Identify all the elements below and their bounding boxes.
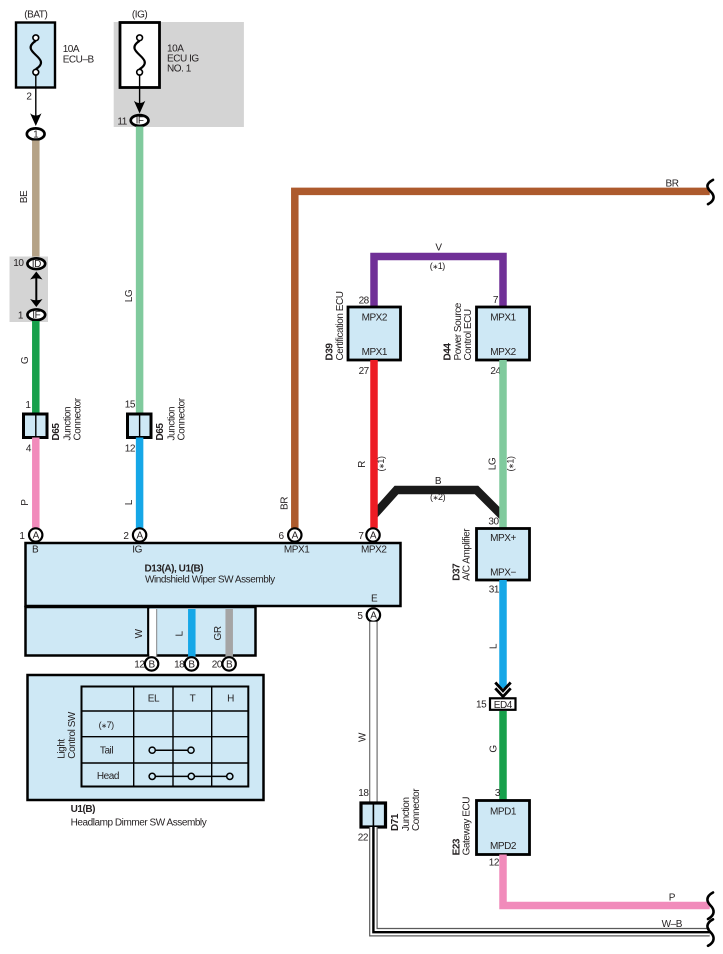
sub box of wiper assembly [26,607,256,656]
pin 12 of D65 [125,444,136,455]
wire fuse to connector 1 [35,75,37,117]
svg-text:(∗7): (∗7) [99,720,115,730]
pin 28 of D39 [359,295,370,306]
node (BAT) label [24,10,47,21]
pin 12 of E23 [489,857,500,868]
pin 27 of D39 [359,366,370,377]
pin 15 of D65 [125,400,136,411]
svg-text:A: A [292,531,299,542]
break squiggle W-B [707,919,713,946]
svg-text:W: W [134,628,145,638]
svg-text:1: 1 [33,129,39,140]
svg-text:10A: 10A [63,44,80,55]
fuse value label 10A ECU-B [63,44,95,66]
ECU D44 Power Source Control ECU [477,307,530,360]
wire fuse to IF [139,75,141,104]
node (IG) label [132,10,148,21]
svg-text:1: 1 [18,311,24,322]
svg-text:W: W [357,732,368,742]
connector ED4 [490,698,516,711]
svg-text:D65: D65 [51,423,62,441]
svg-text:MPX−: MPX− [490,568,516,579]
svg-text:EL: EL [148,694,160,705]
wire label LG [124,289,135,302]
table header T [190,694,196,705]
wire V [374,257,503,308]
svg-text:G: G [489,745,500,753]
label Headlamp Dimmer SW Assembly [71,818,207,829]
svg-text:7: 7 [493,295,499,306]
pin 11 [117,117,127,128]
svg-text:BR: BR [280,497,291,510]
label D71 Junction Connector [390,788,422,831]
wire W (inside sub box) [148,607,157,657]
svg-text:Certification ECU: Certification ECU [335,291,346,360]
svg-text:MPD2: MPD2 [490,841,517,852]
svg-text:18: 18 [358,788,369,799]
pin 5 terminal A [357,611,363,622]
label E23 Gateway ECU [452,797,473,856]
label D39 Certification ECU [324,291,346,360]
wire LG right [499,360,507,529]
svg-text:12: 12 [134,660,145,671]
wire W from 5A to D71 [369,622,378,803]
gray block for ID/IF connectors [10,257,49,323]
wire label (*1) under V [430,261,446,271]
svg-text:MPX2: MPX2 [361,545,387,556]
wire label W (right branch) [357,732,368,742]
svg-text:2: 2 [26,92,32,103]
svg-text:Control ECU: Control ECU [463,309,474,360]
double chevron into ED4 [495,683,510,697]
wire label V [435,243,442,254]
wire label BR (vertical) [280,497,291,510]
svg-text:(∗2): (∗2) [430,492,446,502]
fuse 10A ECU-B [16,23,55,88]
break squiggle P [707,893,713,920]
label Light Control SW [57,711,79,759]
wire W-B from D71 down and right to edge [373,827,709,932]
break squiggle BR [707,180,713,204]
pin 1 terminal A [19,531,25,542]
svg-text:LG: LG [488,457,499,470]
svg-text:6: 6 [278,531,284,542]
pin 20 terminal B [212,660,223,671]
terminal 12B [145,657,158,670]
svg-text:(IG): (IG) [132,10,148,21]
pin 1 [18,311,24,322]
double arrow between ID and IF [30,272,42,308]
wire P [32,438,40,529]
pin 3 of E23 [495,788,501,799]
svg-text:Tail: Tail [100,746,113,757]
svg-text:MPX2: MPX2 [490,347,516,358]
wire L [136,438,144,529]
pin 30 of D37 [488,516,499,527]
connector oval 1 [27,128,45,140]
ECU E23 Gateway ECU [477,801,530,855]
svg-text:15: 15 [476,700,487,711]
svg-text:T: T [190,694,196,705]
svg-text:31: 31 [489,585,500,596]
svg-text:D39: D39 [324,343,335,361]
svg-text:7: 7 [358,531,364,542]
switch contact Head row [149,773,233,779]
svg-text:IG: IG [132,545,142,556]
svg-text:D44: D44 [443,343,454,361]
pin 22 of D71 [358,833,369,844]
label D37 A/C Amplifier [452,528,473,581]
svg-text:A/C Amplifier: A/C Amplifier [462,528,473,581]
junction connector D65 (left) [24,414,48,438]
svg-text:B: B [435,476,442,487]
wire label L (right) [489,643,500,649]
svg-text:BR: BR [666,179,679,190]
fuse 10A ECU IG NO.1 [120,23,160,88]
table header H [227,694,234,705]
svg-text:GR: GR [213,626,224,640]
svg-text:ED4: ED4 [494,700,513,711]
svg-text:G: G [20,356,31,364]
ECU D13(A) U1(B) Windshield Wiper SW Assembly [26,543,401,606]
row label Tail [100,746,113,757]
pin 7 terminal A [358,531,364,542]
wire label LG right [488,457,499,470]
svg-text:B: B [32,545,39,556]
wire label G (right) [489,745,500,753]
svg-text:(∗1): (∗1) [506,456,516,472]
svg-text:MPD1: MPD1 [490,807,517,818]
pin 12 terminal B [134,660,145,671]
junction connector D65 (right) [128,414,152,438]
wire label L (sub box) [175,630,186,636]
wire label BE [19,190,30,203]
svg-text:(∗1): (∗1) [430,261,446,271]
svg-text:Connector: Connector [73,397,84,440]
label D65 Junction Connector [51,397,84,440]
svg-text:H: H [227,694,234,705]
svg-text:MPX1: MPX1 [490,312,516,323]
svg-text:A: A [370,531,377,542]
svg-text:10: 10 [13,258,24,269]
svg-text:ID: ID [32,259,41,270]
wire label G [20,356,31,364]
wire L (D37 to ED4) [499,580,507,688]
wire B [374,490,503,516]
pin 24 of D44 [490,366,501,377]
pin 2 of fuse [26,92,32,103]
svg-text:22: 22 [358,833,369,844]
fuse value label 10A ECU IG NO. 1 [167,44,199,75]
svg-text:Connector: Connector [177,397,188,440]
connector oval ID [27,258,45,270]
svg-text:D71: D71 [390,813,401,831]
wire label B [435,476,442,487]
svg-text:B: B [226,660,233,671]
svg-text:L: L [124,499,135,505]
svg-text:Head: Head [97,771,119,782]
wire GR (inside sub box) [225,609,233,657]
wire BR [295,191,710,528]
svg-text:P: P [20,499,31,506]
pin 31 of D37 [489,585,500,596]
wire P (bottom) [503,855,710,906]
svg-text:IF: IF [136,116,144,127]
switch table grid [82,687,249,787]
wire label W [134,628,145,638]
svg-text:30: 30 [488,516,499,527]
svg-text:15: 15 [125,400,136,411]
terminal 5A [367,608,380,621]
pin 6 terminal A [278,531,284,542]
svg-text:27: 27 [359,366,370,377]
svg-text:11: 11 [117,117,127,128]
svg-text:1: 1 [19,531,25,542]
pin 18 terminal B [174,660,185,671]
svg-text:B: B [148,660,155,671]
pin 4 of D65 [26,444,32,455]
row label (*7) [99,720,115,730]
pin 18 of D71 [358,788,369,799]
terminal 1A [29,528,42,541]
svg-text:D65: D65 [155,423,166,441]
wire G (right) [499,711,507,801]
switch U1(B) Headlamp Dimmer SW Assembly [28,675,264,800]
terminal 20B [222,657,235,670]
svg-text:ECU–B: ECU–B [63,55,95,66]
svg-text:P: P [669,892,676,903]
svg-text:L: L [175,630,186,636]
svg-text:MPX1: MPX1 [362,347,388,358]
terminal 6A [288,528,301,541]
wire label L [124,499,135,505]
wire LG [136,127,144,415]
svg-text:R: R [357,461,368,468]
junction connector D71 [361,803,386,827]
svg-text:2: 2 [123,531,129,542]
label D44 Power Source Control ECU [443,302,475,360]
terminal 18B [185,657,198,670]
svg-text:12: 12 [125,444,136,455]
svg-text:A: A [370,611,377,622]
svg-text:L: L [489,643,500,649]
svg-text:V: V [435,243,442,254]
wire label R [357,461,368,468]
gray block IG fuse area [114,22,244,127]
wire G [32,321,40,415]
pin 2 terminal A [123,531,129,542]
svg-text:3: 3 [495,788,501,799]
ECU D37 A/C Amplifier [477,529,530,581]
arrow into connector 1 [30,113,41,126]
svg-text:Light: Light [57,739,68,759]
ECU D39 Certification ECU [348,307,401,360]
wire BE [32,141,40,258]
svg-text:A: A [33,531,40,542]
svg-text:A: A [136,531,143,542]
wire label BR (top right) [666,179,679,190]
wire label (*1) of R [376,456,386,472]
wire label W-B [662,919,683,930]
svg-text:BE: BE [19,190,30,203]
pin 1 of D65 [25,400,31,411]
wire R [370,360,378,528]
svg-text:D13(A), U1(B): D13(A), U1(B) [145,564,204,575]
wire label GR [213,626,224,640]
svg-text:MPX2: MPX2 [362,312,388,323]
svg-text:Headlamp Dimmer SW Assembly: Headlamp Dimmer SW Assembly [71,818,207,829]
svg-text:LG: LG [124,289,135,302]
wire L (inside sub box) [188,609,196,657]
pin 7 of D44 [493,295,499,306]
svg-text:E: E [371,594,378,605]
label U1(B) [71,804,96,815]
svg-text:28: 28 [359,295,370,306]
pin 10 [13,258,24,269]
svg-text:5: 5 [357,611,363,622]
terminal 7A [366,528,379,541]
label D65 Junction Connector (right) [155,397,188,440]
wire label (*2) of B [430,492,446,502]
svg-text:Control SW: Control SW [67,711,78,759]
svg-text:NO. 1: NO. 1 [167,64,192,75]
wire label (*1) of LG [506,456,516,472]
row label Head [97,771,119,782]
svg-text:MPX+: MPX+ [490,533,516,544]
svg-text:12: 12 [489,857,500,868]
svg-text:IF: IF [32,310,40,321]
arrow into IF [134,101,145,114]
svg-text:W–B: W–B [662,919,683,930]
terminal 2A [133,528,146,541]
svg-text:18: 18 [174,660,185,671]
wire label P (bottom) [669,892,676,903]
connector oval IF [27,309,45,321]
svg-text:20: 20 [212,660,223,671]
svg-text:1: 1 [25,400,31,411]
svg-text:B: B [188,660,195,671]
wire label P [20,499,31,506]
svg-text:Gateway ECU: Gateway ECU [462,797,473,856]
svg-text:U1(B): U1(B) [71,804,96,815]
svg-text:MPX1: MPX1 [284,545,310,556]
svg-text:4: 4 [26,444,32,455]
pin 15 of ED4 [476,700,487,711]
svg-text:Windshield Wiper SW Assembly: Windshield Wiper SW Assembly [145,575,275,586]
switch contact Tail row [149,747,194,753]
svg-text:(BAT): (BAT) [24,10,47,21]
connector oval IF (IG side) [131,115,149,127]
svg-text:(∗1): (∗1) [376,456,386,472]
svg-text:Connector: Connector [411,788,422,831]
table header EL [148,694,160,705]
